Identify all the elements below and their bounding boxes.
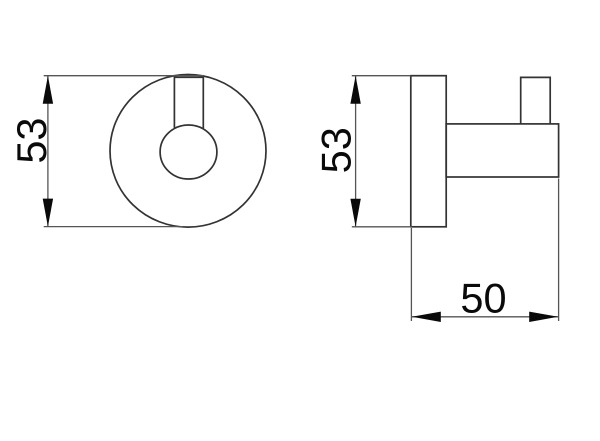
svg-text:53: 53 <box>312 127 359 173</box>
front view inner circle <box>160 125 217 179</box>
bottom dimension arrow left <box>412 312 441 322</box>
left dimension arrow down <box>43 199 53 227</box>
left dimension line <box>47 76 49 226</box>
side view arm <box>446 124 558 177</box>
front view peg outline <box>174 77 203 128</box>
left dimension extension line top <box>44 75 204 77</box>
right dimension arrow up <box>350 76 360 104</box>
right dimension extension line bottom <box>352 226 412 228</box>
left dimension extension line bottom <box>44 226 183 228</box>
side view wall plate <box>411 76 446 227</box>
right dimension arrow down <box>350 199 360 227</box>
side view peg <box>521 77 551 124</box>
right dimension extension line top <box>352 75 411 77</box>
bottom dimension extension line left <box>410 228 412 321</box>
svg-text:50: 50 <box>460 275 506 322</box>
left dimension arrow up <box>43 76 53 104</box>
front view outer circle <box>110 75 266 228</box>
bottom dimension extension line right <box>558 179 560 322</box>
svg-text:53: 53 <box>8 118 55 164</box>
right dimension line <box>355 76 357 227</box>
bottom dimension arrow right <box>529 312 558 322</box>
bottom dimension line <box>412 316 558 318</box>
